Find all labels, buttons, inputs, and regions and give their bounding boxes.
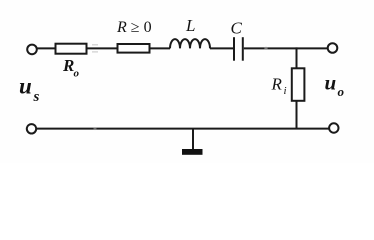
svg-text:L: L xyxy=(185,16,195,35)
svg-text:o: o xyxy=(338,84,345,99)
svg-text:i: i xyxy=(284,85,287,97)
svg-text:u: u xyxy=(325,70,337,94)
svg-text:u: u xyxy=(19,73,32,98)
svg-text:s: s xyxy=(33,89,40,105)
svg-text:C: C xyxy=(231,19,243,38)
svg-text:R ≥ 0: R ≥ 0 xyxy=(116,19,152,36)
svg-text:R: R xyxy=(271,75,283,94)
svg-text:R: R xyxy=(62,56,74,75)
svg-text:o: o xyxy=(74,68,80,80)
